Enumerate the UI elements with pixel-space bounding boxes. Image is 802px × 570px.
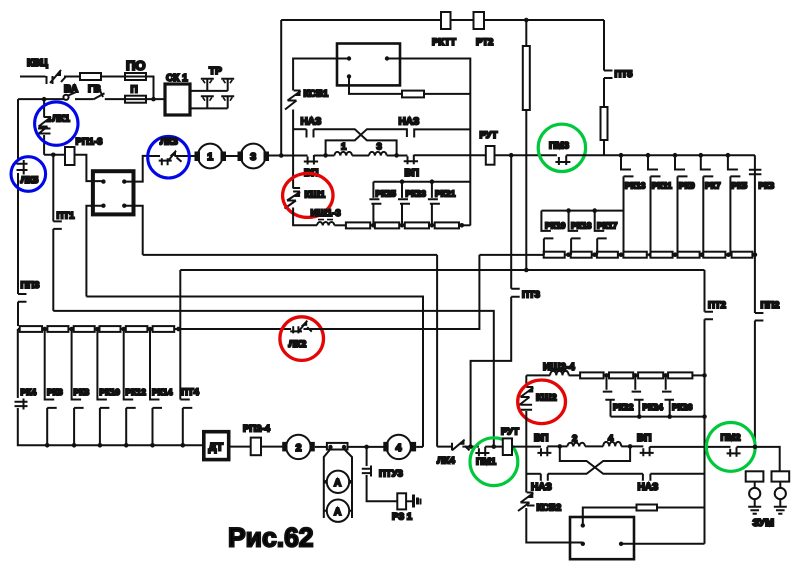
wire КВЦ top row — [20, 76, 46, 78]
svg-text:4: 4 — [396, 442, 402, 454]
svg-text:РК9: РК9 — [679, 181, 695, 191]
motor 1 — [198, 144, 223, 169]
wire ВП4 to ПМ2 — [650, 446, 731, 448]
wire КСБ2 down corner to bottom box — [526, 508, 583, 543]
svg-text:РК23: РК23 — [406, 189, 427, 199]
wire coil2-coil4 — [585, 445, 603, 447]
contact РК25 branch — [369, 182, 381, 226]
relay coil РП2-4 — [251, 438, 261, 456]
motor 3 terminal left — [238, 152, 244, 162]
svg-text:РК13: РК13 — [625, 181, 646, 191]
wire ЛК1 to corner — [43, 135, 45, 155]
svg-text:ПТУ3: ПТУ3 — [379, 469, 403, 480]
node — [69, 327, 74, 332]
svg-text:КВЦ: КВЦ — [27, 58, 48, 69]
resistor ЗУМ 2 — [772, 471, 790, 481]
fuse on reverser bottom wire — [402, 91, 424, 98]
svg-text:КШ2: КШ2 — [536, 393, 557, 404]
node ПТ4 bottom — [181, 443, 186, 448]
node РУТ-ПТ3 branch — [509, 153, 514, 158]
wire ДТ to РП2-4 — [229, 446, 251, 448]
motor field coil 3 — [369, 152, 387, 156]
wire coil4 to ВП4 — [621, 445, 643, 447]
contact РК4 — [15, 329, 28, 410]
wire motor1-motor3 — [226, 155, 240, 157]
resistor bank row R2 — [47, 326, 68, 332]
resistor shunt2 R3 — [638, 372, 663, 378]
node bus РК13 — [619, 153, 624, 158]
wire СК1 to ТР lower — [190, 107, 228, 109]
node ЛК1 branch — [42, 97, 47, 102]
wire ПТ5 to resistor — [603, 78, 605, 107]
wire ПТ4 vertical from wire B — [179, 270, 181, 400]
terminal dot box TL — [101, 179, 105, 183]
svg-text:ДТ: ДТ — [209, 442, 224, 454]
wire x526 down — [525, 20, 527, 46]
motor 4 — [387, 435, 411, 459]
contact ПМ2 — [727, 447, 741, 457]
shunt coil ИШ1-3 — [317, 222, 334, 225]
contact РК21 branch — [428, 182, 440, 226]
svg-text:РП1-3: РП1-3 — [76, 137, 103, 148]
contact РК6 — [45, 329, 57, 445]
node — [45, 443, 50, 448]
node — [148, 327, 153, 332]
contact ПТ3 break — [511, 289, 520, 297]
wire lamp2 to ground — [779, 499, 781, 507]
node — [619, 252, 624, 257]
node shunt left — [328, 445, 332, 449]
contact ЛК2 — [290, 321, 312, 334]
wire ЛК4 to ПМ1 — [462, 446, 479, 448]
svg-text:РК11: РК11 — [652, 181, 672, 191]
lamp ЗУМ 2 — [775, 488, 786, 499]
svg-text:ПТ1: ПТ1 — [57, 211, 76, 222]
contact КСБ2 (electromagnetic) — [518, 493, 535, 512]
contact КШ1 (electromagnetic) — [285, 192, 301, 209]
wire НАЗ3 left to КСБ2 line — [526, 473, 541, 475]
wire shunt row y329 long (with ЛК2) — [18, 328, 291, 330]
ammeter A1 — [327, 471, 349, 493]
relay coil РУТ on bus — [486, 146, 495, 165]
contact НАЗ2 right tick — [414, 129, 470, 137]
highlight circle КШ1 — [283, 173, 333, 217]
contact ПМ1 — [475, 447, 489, 457]
svg-text:П: П — [131, 85, 138, 96]
node — [460, 223, 465, 228]
contact РК14 — [150, 329, 162, 445]
resistor chain R6 — [678, 252, 700, 258]
contact ПП2 break — [755, 255, 764, 321]
transformer box (group box) — [93, 171, 134, 214]
wire to fuse — [64, 76, 80, 78]
node — [371, 223, 376, 228]
svg-text:РК7: РК7 — [705, 181, 721, 191]
core dashes ИШ1-3 — [318, 219, 333, 221]
wire y155 to РП1-3 — [44, 154, 65, 156]
ground contact symbol — [414, 495, 418, 508]
wire box top terminal up to resistor row — [583, 508, 637, 526]
node bus coil loop right — [394, 153, 399, 158]
svg-text:3: 3 — [250, 151, 256, 163]
node — [121, 327, 126, 332]
wire ПТ3 from РУТ node — [510, 155, 512, 289]
contactor СК 1 box — [165, 84, 190, 115]
resistor shunt R4 — [435, 222, 459, 228]
svg-text:ПП2: ПП2 — [761, 300, 780, 311]
wire КШ2 down across РУТ wire to КСБ2 — [525, 411, 527, 493]
contact РК13 hook — [621, 155, 634, 254]
svg-text:РК8: РК8 — [74, 387, 90, 397]
wire reverser bottom — [349, 76, 402, 94]
contact ВА — [63, 95, 68, 100]
svg-text:РК4: РК4 — [21, 387, 37, 397]
node — [592, 252, 597, 257]
wire box right terminal to ПТ2 line — [621, 543, 704, 545]
highlight circle ЛК2 — [280, 317, 324, 361]
contact ПП3 break — [18, 294, 27, 302]
wire R4 to ПТ2 line — [692, 374, 704, 376]
node — [648, 252, 653, 257]
wire ПМ3 to bank — [566, 154, 755, 156]
svg-text:ВА: ВА — [64, 84, 78, 95]
wire РП1-3 to corner, down to transformer box — [75, 155, 104, 181]
wire corner to row2 — [146, 77, 154, 100]
node — [124, 443, 129, 448]
resistor bank row R1 — [20, 326, 42, 332]
wire РК25 top rail — [373, 181, 470, 183]
fuse П — [125, 96, 146, 103]
svg-text:НАЗ: НАЗ — [638, 482, 659, 493]
contact КШ1 tick — [293, 188, 300, 192]
contact КШ2 tick — [526, 386, 533, 388]
svg-text:ЛК3: ЛК3 — [160, 137, 178, 148]
wire B long — [180, 269, 704, 271]
highlight circle ПМ2 — [706, 423, 755, 472]
wire top feeder y20 — [281, 19, 604, 21]
contact РК3 — [749, 170, 762, 175]
svg-text:НАЗ: НАЗ — [531, 482, 552, 493]
contact ВП3 — [537, 447, 551, 457]
fuse ПО — [125, 73, 146, 80]
loop cross right path — [548, 446, 630, 473]
svg-text:СК 1: СК 1 — [166, 73, 188, 84]
resistor vertical long — [523, 46, 530, 110]
node РК17 — [592, 208, 597, 213]
contact ГВ — [94, 92, 105, 100]
node РК18 — [566, 208, 571, 213]
wire motor2 to shunt — [315, 446, 327, 448]
terminal dot box BL — [101, 204, 105, 208]
svg-text:РК18: РК18 — [571, 221, 592, 231]
svg-text:РК21: РК21 — [435, 189, 456, 199]
fuse РКТТ — [441, 12, 451, 29]
node loop left — [558, 444, 563, 449]
highlight circle ПМ1 — [470, 438, 518, 486]
node — [98, 443, 103, 448]
wire into СК1 — [146, 98, 165, 100]
wire СК1 to ТР upper — [190, 90, 228, 92]
wire КШ2 branch from shunt wire — [525, 375, 527, 387]
resistor bank row R4 — [100, 326, 121, 332]
resistor shunt R3 — [405, 222, 429, 228]
resistor shunt2 R4 — [668, 372, 692, 378]
svg-text:ПТ2: ПТ2 — [708, 300, 726, 311]
wire ВА-ГВ — [75, 98, 94, 100]
node ПТ2 rail — [702, 414, 707, 419]
node shunt right — [342, 445, 346, 449]
resistor chain РК19 R1 — [544, 252, 565, 258]
motor field coil 4 — [603, 442, 621, 447]
relay coil РУТ2 — [503, 438, 512, 455]
node — [400, 223, 405, 228]
svg-text:РК5: РК5 — [732, 181, 748, 191]
svg-text:ЛК5: ЛК5 — [21, 175, 39, 186]
wire РП2-4 to motor2 — [261, 446, 283, 448]
wire A left segment — [143, 254, 437, 256]
motor field coil 1 — [334, 152, 352, 156]
lamp ЗУМ 1 — [749, 488, 760, 499]
core dashes ИШ2-4 — [552, 370, 568, 372]
contact РК8 — [72, 329, 84, 445]
wire ПТ2 lower — [704, 319, 706, 544]
node РК26 top — [663, 373, 668, 378]
node ПМ1 left — [468, 444, 473, 449]
svg-text:НАЗ: НАЗ — [301, 117, 322, 128]
node — [566, 252, 571, 257]
node — [667, 414, 672, 419]
svg-text:ЗУМ: ЗУМ — [753, 517, 775, 529]
highlight circle ЛК3 — [148, 136, 190, 178]
terminal dot box TR — [122, 179, 126, 183]
wire row2 left — [18, 98, 64, 100]
wire КШ1 down to shunt chain — [293, 208, 317, 226]
svg-text:НАЗ: НАЗ — [399, 117, 420, 128]
node loop right — [628, 444, 633, 449]
wire РЗ1 to ground contact — [406, 500, 413, 502]
highlight circle ЛК5 — [11, 157, 46, 192]
shunt wire ИШ2-4 — [526, 374, 550, 376]
wire bus ВП1 to coil1 — [314, 155, 335, 157]
svg-text:РК17: РК17 — [597, 221, 618, 231]
svg-text:ЛК1: ЛК1 — [52, 114, 70, 125]
svg-text:А: А — [334, 507, 341, 518]
node bus РК9 — [673, 153, 678, 158]
highlight circle КШ2 — [518, 380, 566, 424]
svg-text:4: 4 — [608, 434, 614, 445]
wire РК19 block top rail — [541, 210, 623, 212]
wire coil to R1 — [569, 374, 580, 376]
node bus РК7 — [699, 153, 704, 158]
reverser box bottom — [570, 517, 634, 559]
shunt coil ИШ2-4 — [550, 371, 569, 376]
wire loop left with cross up to НАЗ2 — [326, 129, 407, 155]
contact РК10 — [97, 329, 109, 445]
ground 1 — [748, 507, 761, 514]
node chain to ПП2 line — [753, 252, 758, 257]
node РК22 top — [604, 373, 609, 378]
resistor chain R2 — [571, 252, 592, 258]
pantograph ТР symbol 3 — [201, 96, 214, 108]
resistor chain R3 — [597, 252, 618, 258]
svg-text:ПТ5: ПТ5 — [615, 69, 634, 80]
wire НАЗ4 right to ПТ2 line — [650, 473, 704, 475]
pantograph ТР symbol 4 — [221, 96, 234, 108]
motor 2 terminal right — [310, 442, 315, 452]
wire НАЗ1 right with cross to loop — [314, 129, 397, 155]
motor 1 terminal right — [221, 152, 227, 162]
node — [673, 252, 678, 257]
wire coil to R — [334, 224, 346, 226]
contact ПТ5 break — [604, 71, 613, 79]
node bus coil loop left — [323, 153, 328, 158]
motor 3 — [241, 144, 266, 169]
contact ВП2 — [404, 155, 418, 165]
contact РК12 — [124, 329, 136, 445]
svg-text:ВП: ВП — [405, 168, 419, 179]
contact ПТ1 break — [53, 221, 62, 229]
node ПТ2 shunt — [702, 373, 707, 378]
wire B corner down ПТ2 — [704, 270, 706, 312]
node — [42, 327, 47, 332]
relay РЗ 1 coil — [397, 493, 406, 509]
ammeter loop frame — [324, 449, 352, 518]
motor 2 — [286, 435, 310, 459]
wire between coils — [352, 155, 369, 157]
node row to ПТ4 line — [176, 327, 181, 332]
contact ЛК1 — [37, 117, 51, 135]
wire РУТ to ПМ3 — [495, 154, 557, 156]
node wire B x526 — [524, 268, 529, 273]
node top wire x526 — [524, 18, 529, 23]
wire НАЗ1 branch — [293, 128, 306, 130]
contact ПТУ3 — [362, 447, 372, 477]
pantograph ТР symbol 2 — [221, 79, 234, 91]
wire bus motor3 to ВП1 — [269, 155, 308, 157]
node — [430, 223, 435, 228]
resistor shunt R2 — [375, 222, 399, 228]
ground 2 — [774, 507, 787, 514]
wire ПП2 lower — [754, 321, 756, 447]
wire ПМ2 to ЗУМ right branch — [737, 447, 780, 471]
current sensor ДТ box — [204, 432, 229, 460]
wire shunt to motor4 — [348, 446, 385, 448]
motor 1 terminal left — [195, 152, 201, 162]
wire ПМ1 to РУТ2 — [485, 446, 503, 448]
svg-text:ИШ2-4: ИШ2-4 — [543, 362, 575, 373]
resistor shunt2 R1 — [580, 372, 604, 378]
wire to lamp 1 — [754, 482, 756, 488]
contact РК7 hook — [701, 155, 714, 254]
svg-text:ПТ3: ПТ3 — [522, 290, 540, 301]
wire lamp1 to ground — [754, 499, 756, 507]
contact РК23 branch — [398, 182, 410, 226]
wire box BL down-left — [86, 206, 103, 297]
svg-text:РК26: РК26 — [672, 402, 693, 412]
resistor ПТ5 branch — [601, 107, 608, 140]
contact ПТ4 hook — [180, 400, 192, 446]
contact РК11 hook — [648, 155, 661, 254]
svg-text:РК6: РК6 — [47, 387, 63, 397]
resistor shunt2 R2 — [609, 372, 633, 378]
wire ВП3 to coil2 — [547, 445, 567, 447]
vertical ЛК5 line — [17, 99, 19, 161]
svg-text:РТ2: РТ2 — [476, 37, 493, 48]
resistor chain R4 — [623, 252, 646, 258]
svg-text:РК22: РК22 — [613, 402, 634, 412]
contact НАЗ4 — [643, 474, 651, 481]
svg-text:ТР: ТР — [209, 66, 222, 77]
svg-text:Рис.62: Рис.62 — [228, 523, 314, 553]
contact ВП4 — [640, 447, 654, 457]
svg-text:ПТ4: ПТ4 — [181, 387, 200, 398]
node ПТ1 branch — [51, 153, 56, 158]
wire РК22-26 bottom rail — [611, 416, 705, 418]
wire resistor to bus — [603, 140, 605, 155]
svg-text:РУТ: РУТ — [501, 427, 519, 438]
wire box TR to ЛК3 — [124, 156, 148, 182]
contact РК9 hook — [675, 155, 688, 254]
resistor КСБ row — [637, 505, 658, 511]
wire ЛК2 right to corner up wire A — [304, 255, 480, 329]
relay coil РП1-3 — [65, 147, 75, 165]
svg-text:КСБ1: КСБ1 — [304, 89, 329, 100]
resistor chain R7 — [703, 252, 725, 258]
contact РК24 — [632, 375, 644, 416]
svg-text:РЗ 1: РЗ 1 — [392, 512, 413, 523]
contact ПМ3 — [555, 155, 570, 165]
node — [637, 414, 642, 419]
node ammeter A1 right — [349, 480, 353, 484]
contact РК17 — [595, 211, 607, 255]
wire down to ЛК1 — [43, 99, 45, 117]
svg-text:ЛК2: ЛК2 — [289, 339, 307, 350]
wire РК4 down corner bottom rail — [18, 408, 204, 445]
node РК21 top — [430, 179, 435, 184]
node — [95, 327, 100, 332]
wire coil3 to ВП2 — [387, 155, 408, 157]
wire ПТ1 lower to wire-311 — [52, 229, 54, 311]
svg-text:ПМ3: ПМ3 — [549, 141, 569, 152]
svg-text:ПМ2: ПМ2 — [721, 433, 741, 444]
contact РК26 — [662, 375, 674, 416]
motor field coil 2 — [567, 443, 585, 447]
contact ПТ2 break — [705, 312, 714, 320]
wire bus corner down РК3 — [754, 155, 756, 254]
svg-text:РК25: РК25 — [376, 189, 397, 199]
svg-text:А: А — [334, 478, 341, 489]
node junction row2/row1 — [151, 97, 156, 102]
contact РК22 — [603, 375, 615, 416]
wire motor4 to riser — [416, 446, 423, 448]
wire resistor to ПТ2 line — [657, 507, 705, 509]
contact ЛК4 — [437, 440, 469, 451]
loop cross left path — [560, 446, 643, 473]
svg-text:ИШ1-3: ИШ1-3 — [311, 208, 341, 219]
svg-text:РК12: РК12 — [126, 387, 147, 397]
resistor bank row R6 — [153, 326, 175, 332]
resistor chain R8 — [732, 252, 753, 258]
motor 4 terminal right — [411, 442, 416, 452]
contact КСБ1 (electromagnetic) — [285, 91, 301, 110]
wire x526 resistor to bus crossing down to wire B — [525, 110, 527, 270]
svg-text:ВП: ВП — [637, 433, 651, 444]
node ПТУ3 branch — [364, 445, 369, 450]
svg-text:КСБ2: КСБ2 — [537, 503, 562, 514]
node bus РК11 — [646, 153, 651, 158]
svg-text:1: 1 — [207, 151, 213, 163]
wire — [101, 76, 125, 78]
